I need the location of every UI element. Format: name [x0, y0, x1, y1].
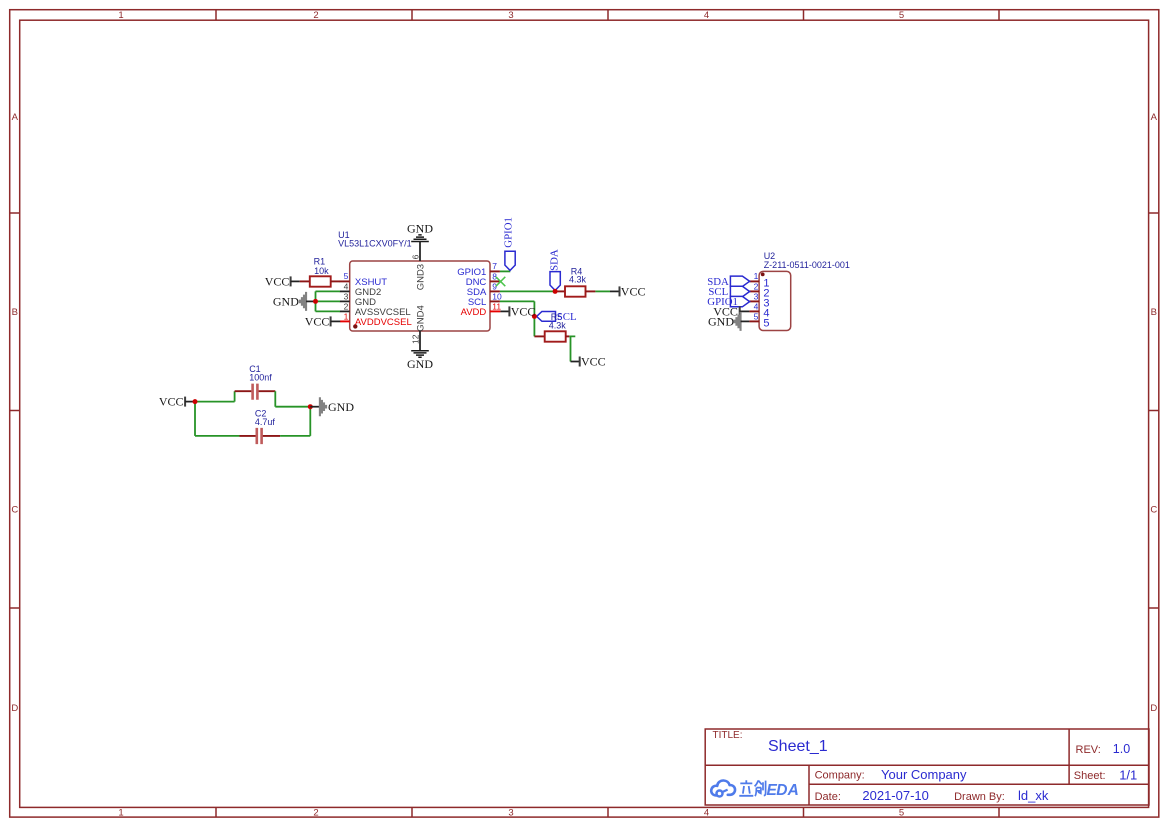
svg-text:A: A — [1151, 112, 1158, 123]
EDA — [767, 782, 799, 799]
wire pin10 SCL down — [500, 301, 535, 336]
wire C1 to gnd — [275, 391, 310, 407]
VCC flag below R5 — [580, 354, 606, 368]
svg-text:8: 8 — [492, 271, 497, 281]
svg-text:SDA: SDA — [549, 249, 561, 271]
svg-text:5: 5 — [899, 10, 904, 21]
svg-text:4: 4 — [754, 301, 759, 311]
svg-text:5: 5 — [344, 271, 349, 281]
U2 reference label — [764, 251, 850, 270]
svg-text:3: 3 — [754, 291, 759, 301]
svg-text:A: A — [12, 112, 19, 123]
svg-text:11: 11 — [492, 301, 501, 311]
ground bottom — [407, 341, 433, 371]
svg-text:Date:: Date: — [815, 791, 841, 803]
U1 pin 6 GND3 — [410, 251, 426, 290]
capacitor C1 — [235, 384, 276, 400]
svg-text:C: C — [11, 505, 18, 516]
svg-text:7: 7 — [492, 261, 497, 271]
svg-text:5: 5 — [899, 808, 904, 819]
connector U2 body — [759, 271, 791, 330]
svg-text:VCC: VCC — [305, 314, 330, 328]
svg-text:GND: GND — [708, 314, 734, 328]
svg-text:VCC: VCC — [265, 274, 290, 288]
wire C2 to gnd — [280, 407, 310, 436]
svg-text:2: 2 — [754, 281, 759, 291]
svg-text:1: 1 — [118, 808, 123, 819]
capacitor C2 — [240, 428, 281, 444]
U2 pin 3 — [749, 291, 769, 309]
U1 pin 2 AVSSVCSEL — [340, 301, 411, 318]
U1 pin 5 XSHUT — [340, 271, 388, 288]
svg-text:GND: GND — [407, 222, 433, 236]
svg-text:AVDDVCSEL: AVDDVCSEL — [355, 317, 412, 328]
junction at gnd bus — [313, 299, 318, 304]
svg-text:SCL: SCL — [557, 311, 577, 323]
svg-text:1.0: 1.0 — [1113, 742, 1130, 756]
svg-text:GND: GND — [273, 294, 299, 308]
VCC flag at pin 1 — [305, 314, 340, 328]
svg-text:D: D — [776, 782, 787, 799]
ground flag at pin 3 — [273, 292, 316, 311]
no-connect X at pin 8 — [496, 277, 505, 286]
svg-text:B: B — [1151, 307, 1157, 318]
ground flag at U2 pin 5 — [708, 312, 749, 331]
svg-text:Company:: Company: — [815, 769, 865, 781]
net port SDA — [549, 249, 561, 290]
VCC flag at pin 11 — [509, 304, 535, 318]
svg-text:1/1: 1/1 — [1119, 767, 1137, 782]
svg-text:REV:: REV: — [1076, 744, 1101, 756]
C2 labels — [255, 408, 276, 427]
wire gnd bus to pins 2,3,4 — [316, 291, 341, 311]
U1 pin 8 DNC — [466, 271, 500, 288]
svg-text:B: B — [12, 307, 18, 318]
svg-text:1: 1 — [118, 10, 123, 21]
svg-text:4: 4 — [704, 10, 709, 21]
svg-text:1: 1 — [754, 271, 759, 281]
U1 pin 9 SDA — [467, 281, 500, 298]
svg-text:4: 4 — [704, 808, 709, 819]
svg-text:D: D — [1150, 703, 1157, 714]
VCC flag at U2 pin 4 — [713, 304, 749, 318]
R4 labels — [569, 267, 587, 285]
R1 labels — [314, 257, 330, 277]
ground flag at C2 — [320, 397, 354, 416]
svg-text:VCC: VCC — [511, 304, 536, 318]
创 glyph — [755, 780, 766, 796]
svg-text:AVDD: AVDD — [461, 307, 487, 318]
wire R5 to VCC — [569, 336, 579, 361]
U1 reference label — [338, 230, 412, 248]
svg-text:2: 2 — [344, 301, 349, 311]
junction at SDA — [553, 289, 558, 294]
U2 pin 1 — [749, 271, 769, 289]
wire pin11 to VCC — [500, 310, 509, 312]
U1 pin 12 GND4 — [410, 305, 426, 344]
U1 pin 10 SCL — [468, 291, 502, 308]
C1 labels — [249, 364, 272, 383]
svg-text:10k: 10k — [314, 266, 329, 276]
resistor R5 — [534, 331, 569, 341]
svg-text:6: 6 — [410, 254, 420, 259]
svg-text:2: 2 — [313, 10, 318, 21]
svg-text:D: D — [11, 703, 18, 714]
svg-text:100nf: 100nf — [249, 372, 272, 382]
svg-text:3: 3 — [508, 808, 513, 819]
svg-text:GND: GND — [328, 400, 354, 414]
junction at gnd — [308, 404, 313, 409]
svg-text:A: A — [787, 782, 799, 799]
svg-text:3: 3 — [344, 291, 349, 301]
wire VCC to C1 — [195, 391, 235, 401]
svg-text:GND4: GND4 — [415, 305, 426, 331]
svg-text:VL53L1CXV0FY/1: VL53L1CXV0FY/1 — [338, 238, 412, 248]
VCC flag at R1 — [265, 274, 300, 288]
svg-text:4: 4 — [344, 281, 349, 291]
net port SCL at U2 — [708, 286, 749, 298]
U1 pin 3 GND — [340, 291, 376, 308]
net port SDA at U2 — [707, 276, 749, 288]
svg-text:5: 5 — [763, 318, 769, 330]
svg-text:1: 1 — [344, 311, 349, 321]
svg-text:10: 10 — [492, 291, 502, 301]
svg-text:GPIO1: GPIO1 — [503, 217, 515, 248]
TITLE BLOCK — [705, 729, 1149, 805]
CIRCUIT — [159, 217, 850, 444]
wire pin7 to GPIO1 port — [500, 270, 510, 272]
U2 pin 2 — [749, 281, 769, 299]
logo 立创EDA — [711, 780, 799, 799]
resistor R1 — [300, 276, 340, 286]
U2 pin 4 — [749, 301, 769, 319]
svg-text:TITLE:: TITLE: — [713, 730, 743, 741]
net port SCL — [537, 312, 556, 322]
wire VCC down to C2 — [195, 402, 240, 436]
U2 pin 5 — [749, 311, 769, 329]
svg-text:Sheet:: Sheet: — [1074, 770, 1106, 782]
svg-text:2021-07-10: 2021-07-10 — [862, 788, 929, 803]
U1 pin 11 AVDD — [461, 301, 502, 318]
svg-text:ld_xk: ld_xk — [1018, 788, 1049, 803]
ground top — [407, 222, 433, 251]
svg-text:3: 3 — [508, 10, 513, 21]
resistor R4 — [555, 286, 595, 296]
svg-text:GND3: GND3 — [415, 264, 426, 290]
svg-text:VCC: VCC — [621, 284, 646, 298]
junction at SCL — [532, 314, 537, 319]
svg-text:5: 5 — [754, 311, 759, 321]
svg-text:2: 2 — [313, 808, 318, 819]
U1 pin 4 GND2 — [340, 281, 382, 298]
junction at VCC — [193, 399, 198, 404]
svg-text:Z-211-0511-0021-001: Z-211-0511-0021-001 — [764, 260, 850, 270]
wire to gnd flag — [310, 406, 320, 408]
svg-text:VCC: VCC — [581, 354, 606, 368]
svg-text:VCC: VCC — [159, 395, 184, 409]
U1 pin 1 AVDDVCSEL — [340, 311, 412, 328]
立 glyph — [739, 780, 753, 796]
svg-text:4.7uf: 4.7uf — [255, 417, 276, 427]
net port GPIO1 at U2 — [707, 296, 749, 308]
IC U1 body — [350, 261, 490, 331]
svg-text:Your Company: Your Company — [881, 767, 967, 782]
R5 labels — [549, 312, 567, 331]
svg-text:R1: R1 — [314, 257, 326, 267]
svg-text:Sheet_1: Sheet_1 — [768, 738, 828, 755]
svg-text:4.3k: 4.3k — [569, 275, 587, 285]
svg-text:Drawn By:: Drawn By: — [954, 791, 1005, 803]
wire R4 to VCC — [595, 290, 619, 292]
VCC flag at C1 — [159, 395, 195, 409]
U1 pin 7 GPIO1 — [457, 261, 500, 278]
VCC flag at R4 — [620, 284, 646, 298]
wire pin9 SDA — [500, 290, 555, 292]
svg-text:C: C — [1150, 505, 1157, 516]
svg-text:12: 12 — [410, 334, 420, 344]
net port GPIO1 — [503, 217, 516, 270]
svg-text:GND: GND — [407, 357, 433, 371]
